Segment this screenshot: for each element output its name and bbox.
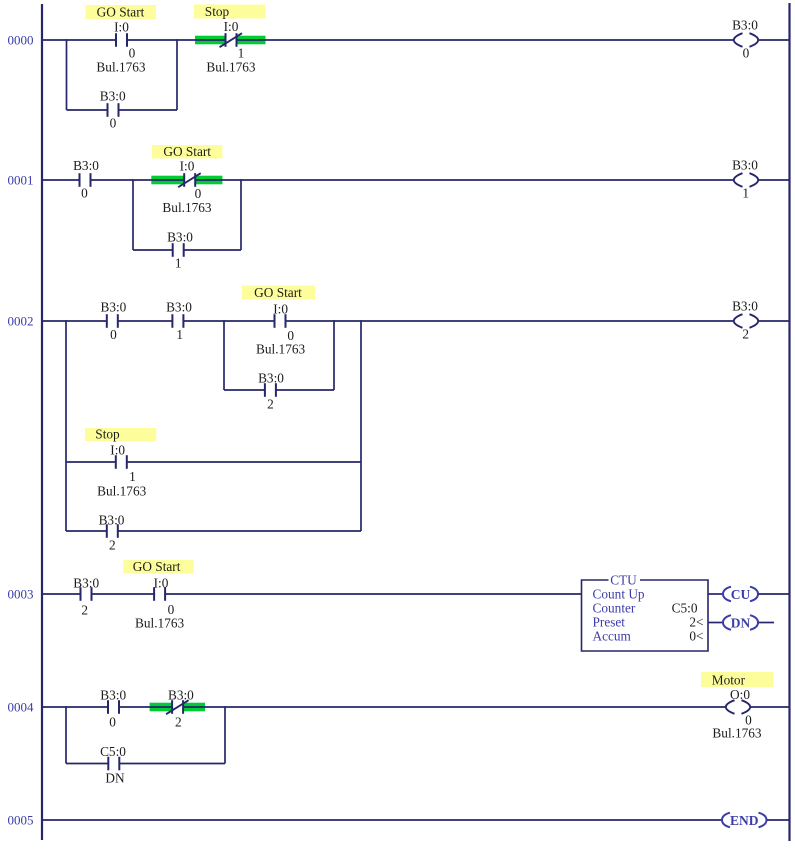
rung 0000 wire: rail to contact I:0/0	[43, 39, 116, 41]
rung 0001 wire: rail to contact B3:0/0	[43, 179, 80, 181]
rung 0000 branch wire right	[119, 109, 178, 111]
svg-text:1: 1	[176, 327, 183, 342]
rung 0004 branch right vertical	[224, 706, 226, 763]
svg-text:GO Start: GO Start	[133, 559, 181, 574]
svg-text:Bul.1763: Bul.1763	[256, 342, 305, 357]
svg-text:Bul.1763: Bul.1763	[135, 616, 184, 631]
contact XIC B3:0/0 (seal-in branch)	[108, 103, 119, 117]
label GO Start (rung 0002)	[242, 285, 315, 300]
rung 0004 wire: rail to contact B3:0/0	[43, 706, 108, 708]
svg-text:I:0: I:0	[110, 443, 125, 458]
contact XIC I:0/0 GO Start (rung 0003)	[154, 587, 165, 601]
svg-text:B3:0: B3:0	[100, 688, 126, 703]
svg-text:Stop: Stop	[95, 427, 120, 442]
svg-text:B3:0: B3:0	[732, 158, 758, 173]
svg-text:C5:0: C5:0	[672, 601, 698, 616]
rung 0004 wire: coil to right rail	[750, 706, 789, 708]
label Motor (rung 0004)	[701, 672, 774, 688]
rung 0002 inner branch wire left	[224, 389, 265, 391]
contact XIC B3:0/1 (seal-in branch rung 0001)	[173, 243, 184, 257]
svg-text:1: 1	[129, 469, 136, 484]
green highlight left of XIO B3:0/2	[150, 703, 173, 712]
svg-text:Count Up: Count Up	[593, 587, 645, 602]
svg-text:2: 2	[109, 538, 116, 553]
label GO Start (rung 0000)	[86, 5, 157, 20]
svg-text:0: 0	[109, 715, 116, 730]
svg-text:I:0: I:0	[154, 576, 169, 591]
svg-text:Motor: Motor	[712, 673, 746, 688]
svg-text:2: 2	[81, 603, 88, 618]
svg-text:CU: CU	[731, 587, 751, 602]
svg-text:B3:0: B3:0	[167, 230, 193, 245]
svg-text:DN: DN	[105, 771, 125, 786]
green highlight left of XIO I:0/1	[195, 36, 226, 45]
END coil	[722, 813, 767, 828]
svg-text:B3:0: B3:0	[732, 18, 758, 33]
contact XIC B3:0/0 (rung 0002)	[107, 314, 118, 328]
svg-text:Accum: Accum	[593, 629, 632, 644]
right power rail	[788, 3, 790, 841]
rung 0004 branch left vertical	[65, 706, 67, 763]
svg-text:0000: 0000	[8, 32, 34, 47]
svg-text:0005: 0005	[8, 812, 34, 827]
svg-text:I:0: I:0	[114, 20, 129, 35]
svg-text:0004: 0004	[8, 699, 35, 714]
svg-text:Preset: Preset	[593, 615, 626, 630]
rung 0002 lower branch wire right	[118, 530, 361, 532]
label Stop (rung 0002)	[85, 427, 156, 442]
rung 0004 branch wire left	[66, 763, 108, 765]
svg-text:0: 0	[110, 327, 117, 342]
rung 0002 wire: coil to right rail	[758, 320, 789, 322]
contact XIC B3:0/0 (rung 0004)	[108, 700, 119, 714]
svg-text:B3:0: B3:0	[73, 576, 99, 591]
wire CTU to CU coil	[708, 593, 723, 595]
svg-text:B3:0: B3:0	[166, 300, 192, 315]
contact XIC B3:0/2 (lower branch)	[107, 524, 118, 538]
svg-text:I:0: I:0	[224, 19, 239, 34]
svg-text:Bul.1763: Bul.1763	[712, 726, 761, 741]
coil DN output of counter	[723, 615, 758, 630]
svg-text:Bul.1763: Bul.1763	[96, 60, 145, 75]
contact XIO I:0/0 GO Start (rung 0001)	[178, 173, 201, 187]
svg-text:B3:0: B3:0	[100, 300, 126, 315]
svg-text:0: 0	[129, 46, 136, 61]
rung 0002 wire: rail to contact B3:0/0	[43, 320, 107, 322]
svg-text:END: END	[730, 813, 759, 828]
svg-text:B3:0: B3:0	[73, 158, 99, 173]
contact XIC I:0/0 GO Start (rung 0002)	[275, 314, 286, 328]
contact XIC B3:0/1 (rung 0002)	[172, 314, 183, 328]
rung 0001 wire: coil to right rail	[758, 179, 789, 181]
contact XIC B3:0/2 (inner branch)	[265, 383, 276, 397]
rung 0000 wire: contact I:0/0 to contact I:0/1	[127, 39, 226, 41]
svg-text:0: 0	[81, 186, 88, 201]
output coil OTE B3:0/0	[734, 33, 758, 47]
svg-text:Bul.1763: Bul.1763	[206, 60, 255, 75]
rung 0000 branch wire left	[67, 109, 108, 111]
svg-text:0001: 0001	[8, 172, 34, 187]
svg-text:0: 0	[110, 116, 117, 131]
svg-text:GO Start: GO Start	[254, 285, 302, 300]
svg-text:GO Start: GO Start	[97, 5, 145, 20]
green highlight right of XIO I:0/1	[237, 36, 266, 45]
coil CU output of counter	[723, 587, 758, 602]
CTU counter block box	[582, 580, 709, 651]
svg-text:0: 0	[195, 186, 202, 201]
rung 0003 wire: to CTU block	[165, 593, 582, 595]
output coil OTE O:0/0 Motor	[726, 700, 750, 714]
rung 0002 inner branch left vertical	[223, 320, 225, 390]
svg-text:B3:0: B3:0	[99, 513, 125, 528]
rung 0004 wire: to Motor coil	[183, 706, 726, 708]
rung 0001 wire: NC contact to coil	[195, 179, 734, 181]
rung 0003 wire: between contacts	[92, 593, 155, 595]
svg-text:GO Start: GO Start	[163, 144, 211, 159]
svg-text:0<: 0<	[689, 629, 703, 644]
label GO Start (rung 0001)	[152, 144, 222, 159]
svg-text:Stop: Stop	[205, 4, 230, 19]
svg-text:0: 0	[743, 46, 750, 61]
contact XIO I:0/1 Stop	[220, 33, 243, 47]
rung 0002 inner branch wire right	[276, 389, 334, 391]
output coil OTE B3:0/2	[734, 314, 758, 328]
svg-text:1: 1	[742, 186, 749, 201]
svg-text:0003: 0003	[8, 586, 34, 601]
rung 0002 lower branch wire left	[66, 530, 107, 532]
rung 0000 branch right vertical	[176, 39, 178, 110]
rung 0002 wire: to coil	[286, 320, 734, 322]
rung 0002 outer branch left vertical	[65, 320, 67, 531]
rung 0002 Stop branch wire right	[127, 461, 361, 463]
svg-text:1: 1	[175, 256, 182, 271]
rung 0004 wire: between contacts	[119, 706, 172, 708]
green highlight left of XIO I:0/0	[151, 176, 184, 185]
rung 0002 outer branch right vertical	[360, 320, 362, 531]
label GO Start (rung 0003)	[123, 559, 193, 574]
svg-text:2: 2	[742, 327, 749, 342]
rung 0000 wire: contact I:0/1 to coil B3:0/0	[237, 39, 734, 41]
wire CTU to DN coil	[708, 622, 723, 624]
wire CU coil to right rail	[759, 593, 790, 595]
contact XIC I:0/0 GO Start	[116, 33, 127, 47]
label Stop (rung 0000)	[194, 4, 266, 19]
svg-text:0002: 0002	[8, 313, 34, 328]
green highlight right of XIO B3:0/2	[183, 703, 205, 712]
rung 0000 wire: coil to right rail	[758, 39, 789, 41]
svg-text:Counter: Counter	[593, 601, 636, 616]
rung 0005 wire: END coil to right rail	[767, 819, 789, 821]
left power rail	[41, 4, 43, 840]
rung 0001 branch right vertical	[240, 179, 242, 250]
contact XIC B3:0/0 (rung 0001)	[80, 173, 91, 187]
svg-text:DN: DN	[731, 615, 751, 630]
rung 0002 inner branch right vertical	[333, 320, 335, 390]
rung 0002 Stop branch wire left	[66, 461, 116, 463]
contact XIO B3:0/2 (rung 0004)	[166, 700, 189, 714]
rung 0001 branch wire right	[184, 249, 241, 251]
contact XIC B3:0/2 (rung 0003)	[81, 587, 92, 601]
rung 0000 branch left vertical	[66, 39, 68, 110]
svg-text:B3:0: B3:0	[258, 371, 284, 386]
svg-text:1: 1	[238, 46, 245, 61]
svg-text:CTU: CTU	[610, 573, 637, 588]
rung 0002 wire: to contact I:0/0	[183, 320, 274, 322]
contact XIC C5:0/DN (branch)	[108, 757, 119, 771]
rung 0001 branch left vertical	[132, 179, 134, 250]
rung 0001 wire: contact B3:0/0 to NC contact	[91, 179, 185, 181]
svg-text:Bul.1763: Bul.1763	[162, 200, 211, 215]
svg-text:C5:0: C5:0	[100, 744, 126, 759]
svg-text:I:0: I:0	[180, 159, 195, 174]
contact XIC I:0/1 Stop (branch)	[116, 455, 127, 469]
svg-text:2: 2	[175, 715, 182, 730]
wire stub after DN coil	[759, 622, 775, 624]
svg-text:B3:0: B3:0	[100, 89, 126, 104]
rung 0004 branch wire right	[119, 763, 225, 765]
rung 0005 wire: rail to END coil	[43, 819, 722, 821]
output coil OTE B3:0/1	[734, 173, 758, 187]
svg-text:2<: 2<	[689, 615, 703, 630]
svg-text:2: 2	[267, 397, 274, 412]
svg-text:Bul.1763: Bul.1763	[97, 484, 146, 499]
svg-text:B3:0: B3:0	[732, 299, 758, 314]
rung 0001 branch wire left	[133, 249, 173, 251]
rung 0002 wire: between contacts	[118, 320, 173, 322]
rung 0003 wire: rail to contact B3:0/2	[43, 593, 81, 595]
green highlight right of XIO I:0/0	[195, 176, 222, 185]
